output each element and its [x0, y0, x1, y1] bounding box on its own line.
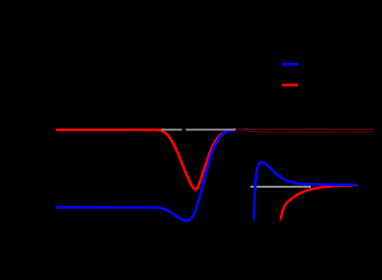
legend blue line sample	[282, 63, 299, 66]
main red curve (upper adiabatic potential)	[56, 129, 236, 189]
inset blue curve (coupling peak)	[254, 162, 356, 218]
thin dark red lower continuation line	[240, 130, 373, 133]
inset red curve (lower state energy)	[281, 185, 352, 218]
main blue curve (lower adiabatic potential)	[56, 130, 236, 221]
inset dark red end dot	[356, 186, 358, 188]
main gray asymptote line right segment	[186, 129, 236, 131]
faint dark red dot near bright end	[236, 132, 239, 133]
thin dark blue continuation segment	[245, 128, 249, 130]
inset gray zero line	[250, 186, 311, 188]
legend red line sample	[282, 84, 298, 87]
inset red curve bottom tip dot	[279, 220, 281, 222]
inset blue curve bottom tip dot	[253, 219, 255, 221]
main gray asymptote line left segment	[161, 129, 182, 131]
thin dark red upper continuation line	[236, 128, 373, 130]
